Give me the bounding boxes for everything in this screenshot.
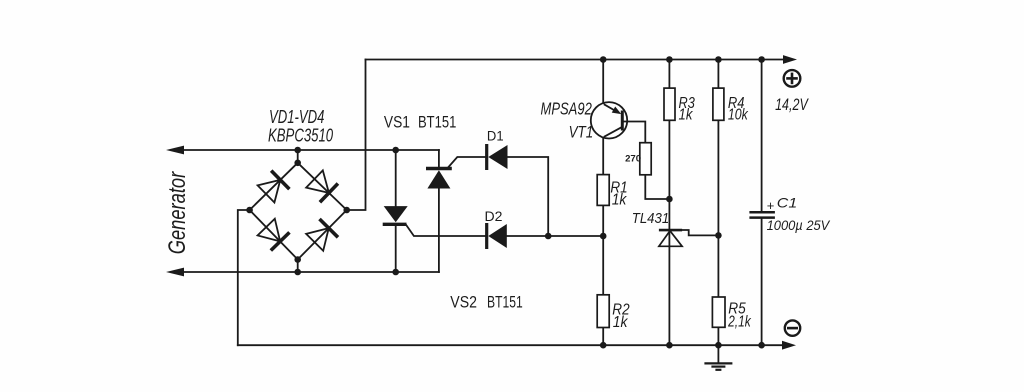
transistor VT1 <box>591 102 627 138</box>
junction ground rail at C1 <box>758 342 765 349</box>
junction generator top at VS2 <box>392 147 399 154</box>
junction D1-D2 tie <box>545 233 552 240</box>
junction generator bottom at VS2 <box>392 269 399 276</box>
junction top rail at C1 <box>758 56 765 63</box>
junction top rail at R4 <box>715 56 722 63</box>
junction 270-R3 node <box>666 196 673 203</box>
svg-text:1k: 1k <box>612 192 628 209</box>
shunt regulator U1 TL431 <box>659 230 682 246</box>
svg-text:TL431: TL431 <box>632 210 669 227</box>
wire VS2 cathode drop <box>395 226 397 272</box>
diode D2 <box>487 223 507 249</box>
node bridge right vertex <box>343 207 350 214</box>
thyristor VS2 <box>383 206 408 224</box>
diode D1 <box>487 144 508 170</box>
wire R5 bottom to ground rail <box>717 327 719 345</box>
resistor 270 <box>640 143 651 175</box>
wire VS2 anode drop <box>395 150 397 206</box>
resistor R1 <box>597 175 609 206</box>
diode VD4 bottom-right <box>306 219 338 251</box>
junction R4-R5 ref node <box>715 232 722 239</box>
svg-text:BT151: BT151 <box>487 293 523 311</box>
wire C1 bottom lead <box>761 218 763 345</box>
wire top rail (+) <box>366 59 784 61</box>
svg-text:D1: D1 <box>487 128 504 144</box>
node bridge bottom vertex <box>294 256 301 263</box>
svg-text:2,1k: 2,1k <box>727 314 751 331</box>
wire VS1 cathode drop <box>438 150 440 167</box>
svg-text:VS1: VS1 <box>384 113 410 131</box>
ground <box>704 345 732 370</box>
junction ground rail at TL431 <box>666 342 673 349</box>
terminal minus output <box>785 320 800 335</box>
junction top rail at VT1 emitter <box>600 56 607 63</box>
diode VD3 bottom-left <box>258 219 290 251</box>
svg-text:VS2: VS2 <box>450 293 477 311</box>
arrow output minus <box>782 341 796 350</box>
wire VS1 anode to bottom line <box>438 189 440 272</box>
junction ground rail at R5 <box>715 342 722 349</box>
junction generator top at bridge <box>294 147 301 154</box>
diode bridge VD1-VD4 diamond <box>250 163 347 260</box>
svg-text:MPSA92: MPSA92 <box>541 99 592 119</box>
svg-text:1k: 1k <box>679 107 694 124</box>
terminal plus output <box>784 70 801 87</box>
wire bridge minus to ground rail <box>238 210 250 345</box>
wire R3 bottom through TL431 to ground rail <box>668 120 670 345</box>
wire VS1 gate to D1 <box>447 157 486 168</box>
wire VT1 base to resistor 270 <box>622 122 645 143</box>
arrow output plus <box>783 55 797 64</box>
wire D1 anode to D2 junction <box>508 157 549 236</box>
junction R1-R2 node <box>600 233 607 240</box>
svg-text:VT1: VT1 <box>569 124 594 142</box>
svg-text:270: 270 <box>625 153 641 164</box>
wire bridge bottom stub <box>297 260 299 273</box>
svg-text:1k: 1k <box>613 314 629 331</box>
wire R4 top to rail <box>717 60 719 89</box>
junction generator bottom at bridge <box>294 269 301 276</box>
svg-text:BT151: BT151 <box>418 113 456 131</box>
wire generator bottom line <box>184 271 439 273</box>
capacitor C1 <box>749 212 775 217</box>
wire VT1 emitter to top rail <box>602 60 604 104</box>
svg-text:D2: D2 <box>485 208 503 224</box>
wire R4 bottom to R5 top <box>717 120 719 297</box>
arrow generator bottom <box>166 268 184 277</box>
svg-text:1000µ 25V: 1000µ 25V <box>767 217 831 233</box>
junction ground rail at R2 <box>600 342 607 349</box>
wire TL431 ref to divider node <box>682 230 718 235</box>
svg-text:KBPC3510: KBPC3510 <box>268 126 333 146</box>
wire bridge top stub <box>297 150 299 163</box>
svg-text:C1: C1 <box>777 195 797 211</box>
wire R1 bottom to R2 top <box>602 205 604 294</box>
diode VD1 top-left <box>258 171 290 203</box>
node bridge top vertex <box>294 160 301 167</box>
svg-text:14,2V: 14,2V <box>775 96 809 114</box>
junction top rail at R3 <box>666 56 673 63</box>
resistor R4 <box>713 88 724 120</box>
resistor R3 <box>664 88 675 120</box>
wire VS2 gate to D2 <box>406 225 487 236</box>
wire R3 top to rail <box>668 60 670 89</box>
wire generator top line <box>184 149 439 151</box>
diode VD2 top-right <box>306 170 338 202</box>
arrow generator top <box>166 146 184 155</box>
svg-text:VD1-VD4: VD1-VD4 <box>269 107 324 127</box>
wire bridge right vertex to top rail riser <box>347 60 366 211</box>
wire bottom ground rail <box>238 344 782 346</box>
wire D2 anode to R1-R2 node <box>507 235 603 237</box>
wire 270 bottom to R3 line <box>645 175 669 199</box>
resistor R2 <box>597 295 609 328</box>
resistor R5 <box>712 297 725 327</box>
node bridge left vertex <box>246 207 253 214</box>
svg-text:10k: 10k <box>728 107 749 124</box>
svg-text:+: + <box>767 198 775 213</box>
svg-text:Generator: Generator <box>164 171 191 254</box>
wire R2 bottom to ground rail <box>602 328 604 346</box>
wire C1 top lead <box>761 60 763 213</box>
thyristor VS1 <box>426 169 452 189</box>
wire VT1 collector to R1 <box>602 138 604 175</box>
